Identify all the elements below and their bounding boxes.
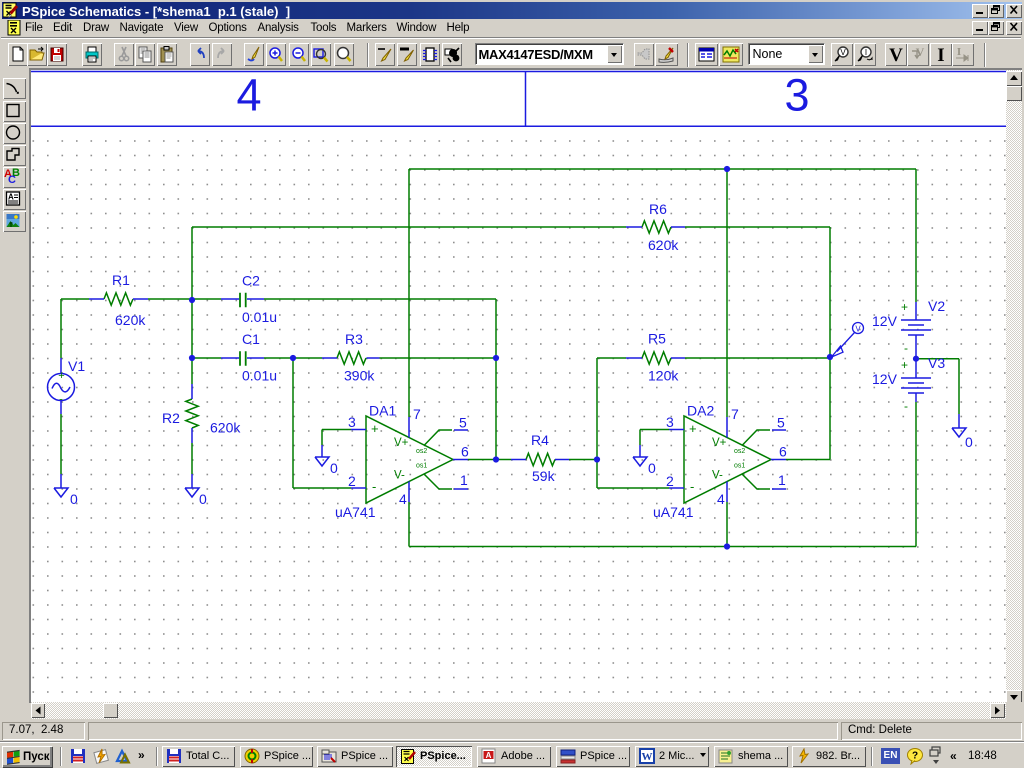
svg-text:A: A (8, 193, 14, 202)
svg-text:V: V (840, 48, 846, 57)
svg-text:I: I (865, 48, 867, 57)
svg-text:A: A (486, 751, 492, 760)
svg-text:C: C (8, 174, 16, 186)
svg-text:W: W (642, 751, 653, 763)
svg-text:I: I (957, 46, 961, 58)
svg-text:V: V (889, 45, 903, 64)
svg-text:I: I (937, 45, 944, 64)
svg-text:?: ? (912, 751, 918, 762)
